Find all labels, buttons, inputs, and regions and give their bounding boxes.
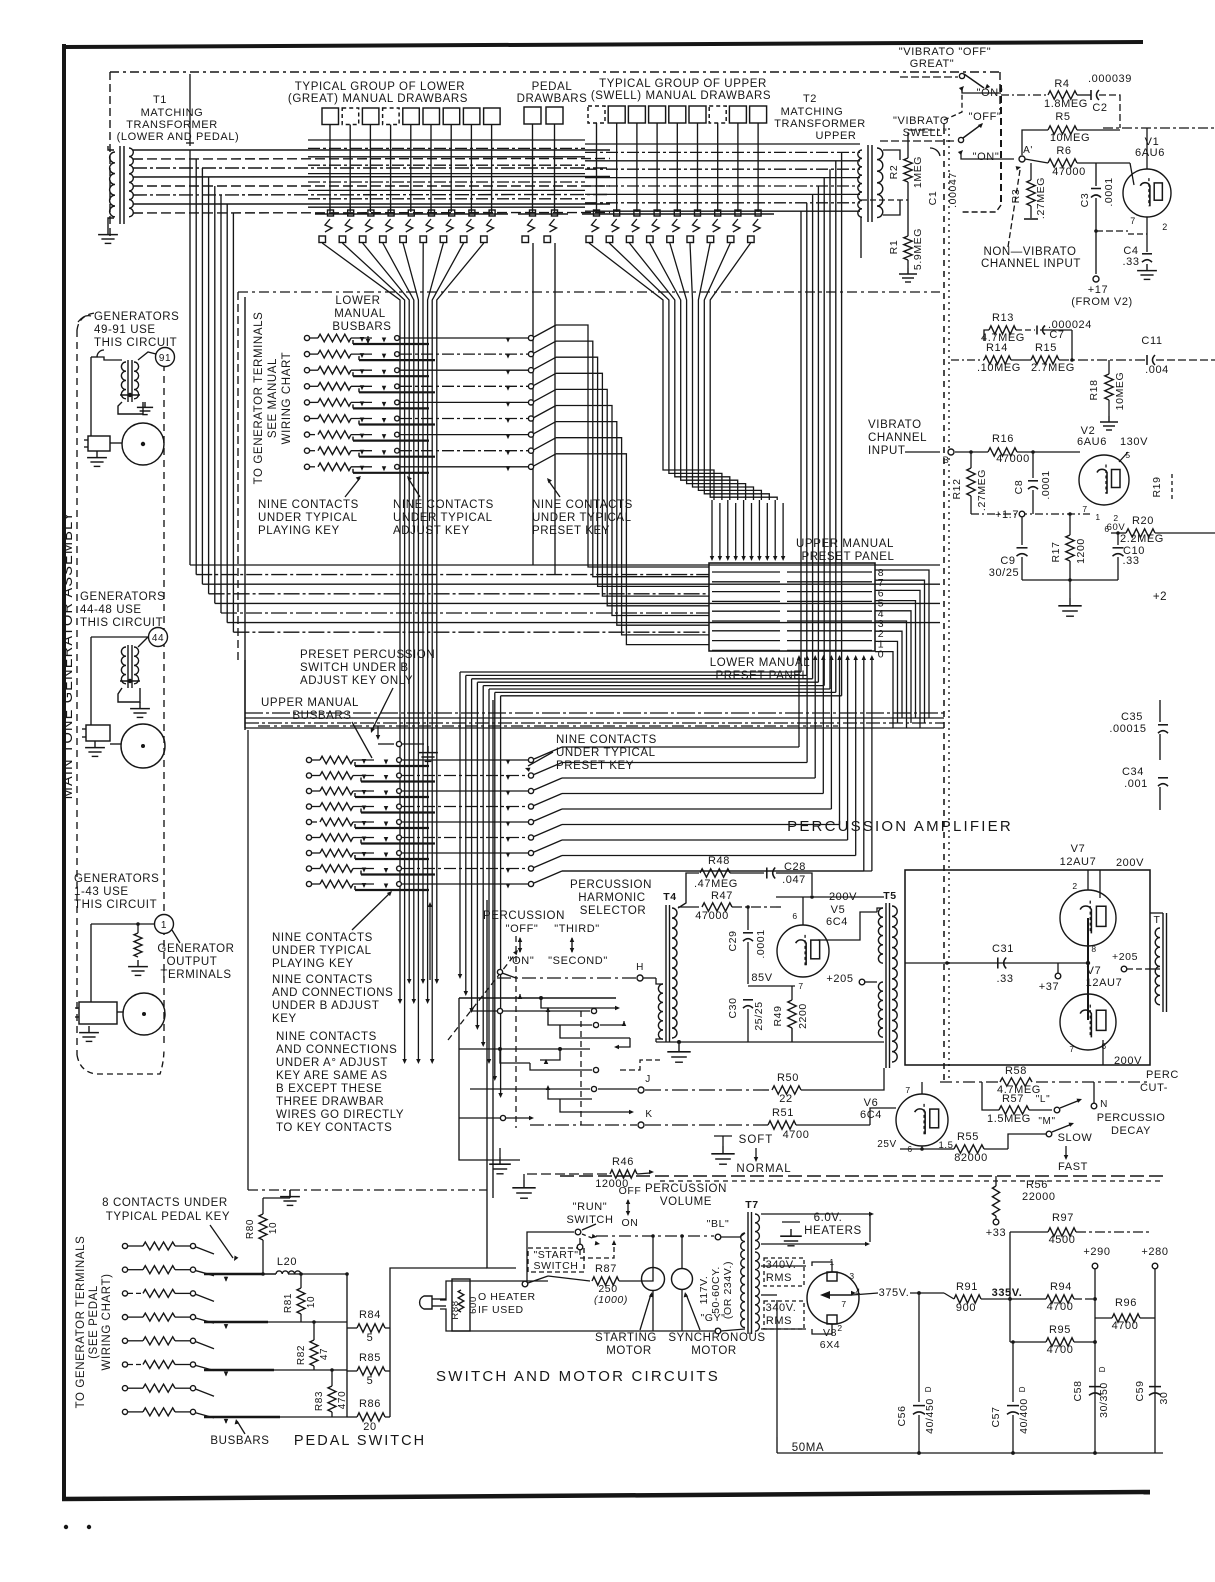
svg-text:SWELL": SWELL" <box>903 127 948 139</box>
contact lower drawbar 3 <box>368 210 374 216</box>
svg-text:1: 1 <box>1095 512 1100 522</box>
lower drawbar busbar rail <box>315 213 508 215</box>
wire A to R6 <box>1025 159 1048 163</box>
wire motors top <box>652 1236 654 1267</box>
busbar lower row 8 <box>359 456 435 458</box>
wire busbar1 to R81 <box>262 1273 276 1275</box>
wire drawbar lower 3 drop <box>369 125 371 213</box>
preset contact lower row 4 <box>528 384 533 389</box>
wire panel bottom feed 6 <box>837 655 842 660</box>
pedal switch blade 7 <box>196 1389 214 1396</box>
wire V5 plate to T5 <box>818 912 877 940</box>
resistor R80 <box>259 1214 267 1240</box>
svg-text:R95: R95 <box>1049 1324 1071 1336</box>
wire drawbar upper 8 drop <box>737 123 739 212</box>
ground V2 stage <box>1069 580 1071 598</box>
wire bundle C vertical 1 <box>459 672 461 975</box>
svg-text:VOLUME: VOLUME <box>660 1196 712 1208</box>
wire L20 to rail <box>301 1273 347 1275</box>
svg-text:RMS: RMS <box>766 1315 792 1327</box>
preset panel bar row 1 <box>712 581 780 583</box>
wire V1 plate up <box>1146 128 1148 169</box>
svg-text:"SECOND": "SECOND" <box>548 955 608 967</box>
transformer T1 primary coil <box>110 152 115 217</box>
wire +1.7 rail <box>971 513 1090 515</box>
svg-text:2.2MEG: 2.2MEG <box>1120 533 1164 545</box>
wire generator bus vertical 2 <box>195 159 197 575</box>
preset contact upper row 1 <box>528 757 533 762</box>
wire R5 left <box>1022 130 1048 155</box>
svg-text:LOWER MANUAL: LOWER MANUAL <box>710 657 811 669</box>
arrow off-on <box>519 938 521 952</box>
svg-text:6: 6 <box>792 911 797 921</box>
svg-text:R46: R46 <box>612 1156 634 1168</box>
svg-text:V5: V5 <box>831 904 846 916</box>
svg-text:R80: R80 <box>245 1219 256 1239</box>
generator feed resistor lower row 2 <box>304 352 309 357</box>
wire panel bottom wrap 5 <box>562 808 831 810</box>
wire V7a plate <box>1099 870 1101 898</box>
wire lower fan 7 <box>428 243 444 306</box>
wire pedal link bus <box>248 1189 487 1191</box>
wire V5 plate top <box>802 897 804 925</box>
contact upper drawbar 6 <box>695 210 701 216</box>
leader non-vibrato <box>1008 170 1020 247</box>
wire panel bottom wrap 2 <box>562 762 807 764</box>
wire panel exit 0 <box>875 652 893 728</box>
svg-text:1-43 USE: 1-43 USE <box>74 886 129 898</box>
svg-text:ADJUST KEY ONLY: ADJUST KEY ONLY <box>300 675 413 687</box>
wire bundle D 2 <box>669 306 722 500</box>
wire panel bottom wrap 1 <box>562 746 799 748</box>
wire start pole <box>527 1232 538 1281</box>
svg-text:SOFT: SOFT <box>739 1134 774 1146</box>
svg-text:85V: 85V <box>751 972 772 984</box>
run switch contact <box>575 1229 581 1235</box>
wire panel bottom wrap 8 <box>562 855 856 857</box>
wire V7b out <box>1102 1040 1104 1065</box>
svg-text:.004: .004 <box>1145 364 1169 376</box>
svg-text:D: D <box>1098 1366 1107 1372</box>
svg-text:10: 10 <box>306 1296 317 1308</box>
svg-text:47: 47 <box>319 1348 330 1360</box>
wire lower fan 8 <box>432 243 463 306</box>
wire lower fan 3 <box>363 243 410 306</box>
transformer T4 core <box>665 905 667 1042</box>
wire drawbar bundle A vertical 6 <box>422 306 424 980</box>
svg-text:MAIN TONE GENERATOR ASSEMBL: MAIN TONE GENERATOR ASSEMBLY <box>60 511 76 800</box>
svg-text:375V.: 375V. <box>879 1287 910 1299</box>
capacitor C58 <box>1089 1386 1101 1388</box>
contact lower row 2 <box>395 352 400 357</box>
contact upper drawbar 3 <box>634 210 640 216</box>
arrow bundle C end 6 <box>487 1059 492 1064</box>
svg-text:NINE CONTACTS: NINE CONTACTS <box>272 974 373 986</box>
svg-text:1MEG: 1MEG <box>912 156 924 188</box>
wire motor rail to GY <box>715 1328 717 1331</box>
drawbar pedal 2 <box>546 107 563 124</box>
wire bundle D 6 <box>693 306 754 500</box>
wire drawbar lower 9 drop <box>491 125 493 213</box>
node +33 <box>993 1219 999 1225</box>
resistor R83 <box>328 1386 336 1412</box>
generator feed resistor upper row 3 <box>306 788 311 793</box>
wire lower bus 1 <box>245 717 944 719</box>
wire selector rail 4 <box>560 1025 630 1038</box>
svg-text:MATCHING: MATCHING <box>781 106 844 118</box>
wire T2 secondary bottom <box>883 200 900 215</box>
T1 primary bottom lead <box>108 218 114 228</box>
wire T4 secondary top <box>678 873 699 908</box>
pedal feed resistor row 7 <box>122 1386 127 1391</box>
svg-text:GENERATORS: GENERATORS <box>74 873 159 885</box>
generator transformer 2 primary <box>121 647 126 684</box>
wire T1 secondary line 7 <box>133 203 610 205</box>
wire preset key feed 8 <box>556 438 709 635</box>
svg-text:PERCUSSION: PERCUSSION <box>645 1183 727 1195</box>
transformer T7 primary coil <box>741 1233 745 1328</box>
wire start to R87 <box>548 1276 590 1281</box>
svg-text:"VIBRATO "OFF": "VIBRATO "OFF" <box>899 46 991 58</box>
wire R51 rail <box>645 1124 768 1126</box>
svg-text:"L": "L" <box>1036 1094 1050 1105</box>
svg-text:C1: C1 <box>927 191 939 206</box>
wire generator bus vertical 5 <box>214 186 216 603</box>
svg-text:5: 5 <box>1125 450 1130 460</box>
preset contact lower row 5 <box>528 400 533 405</box>
wire drawbar bundle A vertical 4 <box>413 306 415 1000</box>
wire T1 secondary line 4 <box>133 176 610 179</box>
svg-text:R1: R1 <box>888 240 900 255</box>
wire selector rail 9 <box>560 1099 630 1112</box>
svg-text:R83: R83 <box>314 1391 325 1411</box>
wire R51 right <box>796 1124 870 1126</box>
wire swell bundle vertical 7 <box>835 232 837 692</box>
arrow bundle C end 3 <box>469 1008 474 1013</box>
svg-text:6AU6: 6AU6 <box>1135 147 1165 159</box>
generator feed resistor upper row 5 <box>306 819 311 824</box>
ground R18 <box>1108 416 1110 422</box>
svg-text:UPPER MANUAL: UPPER MANUAL <box>796 538 894 550</box>
leader playing key <box>345 478 360 497</box>
drawbar upper 1 <box>588 106 605 123</box>
svg-text:12AU7: 12AU7 <box>1086 977 1123 989</box>
busbar lower row 9 <box>353 472 429 474</box>
svg-text:ON: ON <box>622 1217 639 1229</box>
contact lower row 3 <box>395 368 400 373</box>
pickup 1 body <box>88 436 110 451</box>
leader generator output <box>172 930 180 943</box>
wire long bus 1 <box>190 564 940 566</box>
percussion preset switch contact <box>376 735 381 740</box>
tone wheel 2 <box>121 724 165 768</box>
wire swell bundle vertical 5 <box>823 228 825 686</box>
wire swell bundle vertical 6 <box>829 230 831 689</box>
ground gen output <box>137 960 139 967</box>
wire lower fan 9 <box>437 243 484 306</box>
wire generator bus vertical 4 <box>208 177 210 594</box>
svg-text:UNDER A° ADJUST: UNDER A° ADJUST <box>276 1057 388 1069</box>
dashed assembly border left <box>76 330 78 1055</box>
dashed busbar box top <box>238 291 940 293</box>
leader generators 49-91 <box>78 316 91 322</box>
svg-text:200V: 200V <box>1116 857 1144 869</box>
svg-text:2200: 2200 <box>797 1003 809 1029</box>
contact lower row 8 <box>395 448 400 453</box>
transformer T7 hv coil <box>755 1252 759 1331</box>
wire T1 secondary line 2 <box>133 158 610 161</box>
svg-text:R12: R12 <box>951 478 963 499</box>
transformer T6 coil <box>1155 928 1160 1005</box>
svg-text:PRESET KEY: PRESET KEY <box>532 525 610 537</box>
drawbar pedal 1 <box>524 107 541 124</box>
capacitor C8 <box>1032 452 1034 478</box>
resistor R82 <box>310 1340 318 1366</box>
wire T4 secondary tap <box>678 906 699 908</box>
svg-text:(FROM V2): (FROM V2) <box>1071 296 1133 308</box>
wire bottom supply rail <box>777 1452 1163 1454</box>
wire bundle D 4 <box>681 306 738 500</box>
wire long bus 6 <box>221 612 709 614</box>
drawbar upper 9 <box>750 106 767 123</box>
wire panel top feed 8 <box>766 503 768 556</box>
svg-text:C59: C59 <box>1134 1380 1146 1401</box>
preset contact lower row 9 <box>528 464 533 469</box>
svg-text:WIRING CHART): WIRING CHART) <box>101 1273 113 1370</box>
wire panel top feed 4 <box>735 503 737 556</box>
svg-text:22000: 22000 <box>1022 1191 1056 1203</box>
wire upper manual bus line 7 <box>585 193 860 195</box>
dashed selector verticals <box>515 936 517 1128</box>
capacitor C3 <box>1095 163 1097 186</box>
arrow bundle C end 8 <box>498 1093 503 1098</box>
wire selector bottom <box>459 1117 500 1119</box>
contact lower drawbar 7 <box>449 210 455 216</box>
wire panel bottom feed 8 <box>853 655 858 660</box>
dashed assembly border bottom curve <box>77 1048 164 1074</box>
busbar lower row 3 <box>353 375 429 377</box>
svg-text:47000: 47000 <box>1052 166 1086 178</box>
transformer T6 core <box>1162 913 1164 1012</box>
ground T1 <box>107 228 109 235</box>
switch vibrato great <box>959 73 964 78</box>
wire drawbar upper 1 drop <box>596 123 598 212</box>
wire selector left drop <box>458 998 460 1153</box>
wire drawbar upper 2 drop <box>616 123 618 212</box>
svg-text:2: 2 <box>1162 222 1168 232</box>
svg-text:NINE CONTACTS: NINE CONTACTS <box>393 499 494 511</box>
wire preset key feed 1 <box>556 325 709 567</box>
arrow bundle C end 7 <box>493 1076 498 1081</box>
contact upper drawbar 9 <box>755 210 761 216</box>
border frame top <box>63 42 1143 47</box>
transformer T1 secondary coil <box>129 148 133 217</box>
wire drawbar bundle A vertical 9 <box>436 306 438 980</box>
wire T2 to R1 <box>860 217 862 258</box>
svg-text:.27MEG: .27MEG <box>976 469 988 511</box>
pedal feed resistor row 2 <box>122 1267 127 1272</box>
wire run to BL <box>596 1235 714 1237</box>
svg-text:UNDER B ADJUST: UNDER B ADJUST <box>272 1000 379 1012</box>
start switch contact <box>577 1244 583 1250</box>
svg-text:R48: R48 <box>708 855 730 867</box>
wire T2 step 4 <box>817 186 819 226</box>
wire panel bottom feed 5 <box>829 655 834 660</box>
generator transformer 2 core <box>127 645 129 688</box>
svg-text:R97: R97 <box>1052 1212 1074 1224</box>
svg-text:8: 8 <box>1091 944 1096 954</box>
svg-text:47000: 47000 <box>996 453 1030 465</box>
wire preset key feed 4 <box>556 373 709 596</box>
svg-text:900: 900 <box>956 1302 976 1314</box>
wire bundle D 7 <box>698 306 761 500</box>
dashed master bus 1 <box>560 1175 1164 1177</box>
wire bus left drop <box>244 660 246 728</box>
wire upper manual bus line 5 <box>585 177 860 179</box>
svg-text:D: D <box>1018 1386 1027 1392</box>
terminal 91 <box>156 348 175 367</box>
wire vibrato swell pole <box>961 152 1014 159</box>
drawbar lower 8 <box>463 108 480 125</box>
svg-text:5.9MEG: 5.9MEG <box>912 228 924 270</box>
ground T4 <box>678 1044 680 1052</box>
wire T1 secondary line 6 <box>133 194 610 197</box>
svg-text:R3: R3 <box>1010 189 1022 204</box>
wire upper fan 8 <box>704 243 730 306</box>
wire swell bundle vertical 3 <box>812 224 814 679</box>
transformer T5 secondary coil <box>892 906 897 1062</box>
preset contact lower row 1 <box>528 335 533 340</box>
wire long bus 5 <box>215 602 940 604</box>
svg-text:TRANSFORMER: TRANSFORMER <box>774 118 866 130</box>
contact upper row 5 <box>397 820 402 825</box>
contact lower row 4 <box>395 384 400 389</box>
svg-text:C57: C57 <box>990 1406 1002 1427</box>
svg-text:PRESET KEY: PRESET KEY <box>556 760 634 772</box>
wire lower fan 1 <box>322 243 400 306</box>
wire upper fan 2 <box>609 243 669 306</box>
wire preset key feed 6 <box>556 406 709 616</box>
wire R50 right <box>801 1068 884 1090</box>
wire motors bottom <box>652 1291 654 1331</box>
contact lower row 1 <box>395 336 400 341</box>
wire upper manual bus line 1 <box>585 143 860 145</box>
svg-text:R49: R49 <box>772 1005 784 1026</box>
wire selector rail 2 <box>470 1010 590 1012</box>
contact upper drawbar 1 <box>594 210 600 216</box>
ground R1 <box>907 268 909 274</box>
svg-text:B: B <box>943 455 950 466</box>
svg-text:+290: +290 <box>1083 1246 1110 1258</box>
wire bundle C vertical 3 <box>471 679 473 1009</box>
terminal 44 <box>149 628 168 647</box>
drawbar upper 2 <box>608 106 625 123</box>
wire drawbar bundle A vertical 3 <box>408 306 410 980</box>
svg-text:22: 22 <box>779 1093 792 1105</box>
contact lower drawbar 6 <box>429 210 435 216</box>
svg-text:(SWELL) MANUAL DRAWBARS: (SWELL) MANUAL DRAWBARS <box>591 90 771 102</box>
busbar lower row 5 <box>353 407 429 409</box>
generator feed resistor lower row 1 <box>304 335 309 340</box>
svg-text:CHANNEL: CHANNEL <box>868 432 927 444</box>
generator feed resistor upper row 4 <box>306 804 311 809</box>
svg-text:R50: R50 <box>777 1072 799 1084</box>
svg-text:TYPICAL GROUP OF LOWER: TYPICAL GROUP OF LOWER <box>295 81 465 93</box>
wire upper fan 9 <box>710 243 750 306</box>
svg-text:GENERATOR: GENERATOR <box>157 943 234 955</box>
wire busbar box drop to pedal bus <box>247 730 249 1190</box>
svg-text:T: T <box>1153 914 1160 926</box>
svg-text:LOWER: LOWER <box>335 295 380 307</box>
wire lower bus 2 <box>245 722 944 724</box>
pedal feed resistor row 3 <box>122 1291 127 1296</box>
wire generator bus vertical 6 <box>220 195 222 613</box>
busbar upper row 5 <box>355 827 429 829</box>
svg-text:OUTPUT: OUTPUT <box>167 956 218 968</box>
svg-text:UNDER TYPICAL: UNDER TYPICAL <box>393 512 493 524</box>
svg-text:NINE CONTACTS: NINE CONTACTS <box>532 499 633 511</box>
wire generator bus vertical 8 <box>232 213 234 632</box>
svg-text:L20: L20 <box>277 1256 297 1268</box>
generator feed resistor upper row 9 <box>306 881 311 886</box>
svg-text:.10MEG: .10MEG <box>977 362 1021 374</box>
wire long bus 7 <box>227 622 940 624</box>
wire bundle C wrap 3 <box>472 678 813 680</box>
ground pickup 3 <box>88 1026 90 1033</box>
wire T4 bottom rail <box>656 1041 884 1043</box>
wire panel bottom feed 7 <box>845 655 850 660</box>
wire C11 right <box>1156 359 1215 361</box>
transformer T7 heater coil <box>755 1214 759 1249</box>
wire bundle D 9 <box>710 306 777 500</box>
wire V2 cathode bottom rail <box>1022 579 1118 581</box>
svg-text:THIS CIRCUIT: THIS CIRCUIT <box>80 617 163 629</box>
pedal switch blade 2 <box>196 1271 214 1276</box>
pedal feed resistor row 6 <box>122 1362 127 1367</box>
wire long bus 3 <box>202 583 940 585</box>
svg-text:R87: R87 <box>595 1263 617 1275</box>
svg-text:50-60CY.: 50-60CY. <box>710 1266 722 1314</box>
wire drawbar lower 7 drop <box>450 125 452 213</box>
drawbar upper 3 <box>628 106 645 123</box>
svg-text:SWITCH: SWITCH <box>567 1214 614 1226</box>
tube V8 <box>807 1272 859 1324</box>
wire bundle D 3 <box>675 306 730 500</box>
gen2 filter box <box>118 688 140 702</box>
capacitor C4 <box>1142 253 1152 255</box>
busbar upper row 6 <box>361 842 435 844</box>
contact pedal 1 <box>530 210 536 216</box>
preset contact upper row 9 <box>528 881 533 886</box>
wire R80 top <box>263 1197 290 1199</box>
wire long bus 4 <box>209 593 709 595</box>
wire H to T4 <box>643 977 656 979</box>
pedal switch blade 8 <box>196 1413 214 1418</box>
dashed enclosure left edge <box>109 72 111 240</box>
svg-text:4700: 4700 <box>783 1129 810 1141</box>
svg-text:NINE CONTACTS: NINE CONTACTS <box>556 734 657 746</box>
wire V6 plate up <box>921 1082 923 1094</box>
svg-text:7: 7 <box>1069 1044 1074 1054</box>
svg-text:THREE DRAWBAR: THREE DRAWBAR <box>276 1096 384 1108</box>
svg-text:SELECTOR: SELECTOR <box>580 905 647 917</box>
svg-text:RMS: RMS <box>766 1272 792 1284</box>
svg-text:10MEG: 10MEG <box>1050 132 1090 144</box>
contact upper row 6 <box>397 835 402 840</box>
svg-text:44: 44 <box>152 633 164 644</box>
leader starting motor <box>640 1294 651 1330</box>
wire R91 right <box>981 1298 1030 1300</box>
